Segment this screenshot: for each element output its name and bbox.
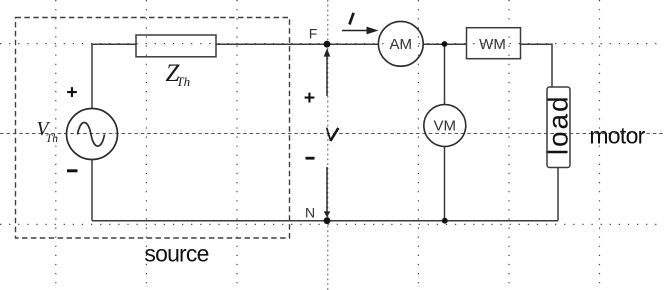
wire: Z_Th to node F — [216, 43, 327, 45]
voltage annotation arrow up to F — [324, 48, 331, 96]
svg-text:+: + — [304, 87, 315, 109]
voltage source V_Th circle — [67, 109, 118, 160]
label V — [327, 128, 339, 141]
load box — [547, 87, 570, 168]
current arrow I — [342, 27, 379, 35]
wire: voltmeter branch top — [444, 44, 446, 104]
svg-text:N: N — [305, 205, 315, 221]
svg-text:load: load — [543, 95, 574, 156]
wire: bottom return — [92, 220, 558, 222]
wattmeter WM box — [467, 28, 521, 59]
sine symbol — [78, 123, 105, 147]
wire: load bottom vertical — [557, 168, 559, 221]
node N dot — [324, 217, 331, 224]
svg-text:VM: VM — [434, 118, 457, 135]
wire: voltmeter branch bottom — [444, 147, 446, 221]
wire: wattmeter to load top — [521, 44, 553, 87]
svg-text:source: source — [144, 241, 208, 267]
voltage annotation arrow down to N — [324, 167, 331, 217]
wire: ammeter to junction — [423, 43, 445, 45]
svg-text:+: + — [66, 82, 77, 104]
wire: junction to wattmeter — [445, 43, 467, 45]
voltmeter VM — [424, 105, 466, 147]
source boundary dashed box — [16, 18, 290, 239]
wire: source top vertical — [92, 44, 136, 109]
svg-text:ZTh: ZTh — [166, 60, 191, 89]
junction dot at ammeter-wattmeter — [442, 41, 448, 47]
ammeter AM — [378, 21, 423, 66]
wire: source bottom vertical — [91, 160, 93, 221]
svg-text:AM: AM — [390, 36, 413, 53]
wire: node F to ammeter — [327, 43, 379, 45]
svg-text:motor: motor — [589, 123, 645, 149]
svg-text:F: F — [309, 26, 318, 42]
node F dot — [324, 41, 331, 48]
svg-text:WM: WM — [479, 36, 506, 53]
label I — [349, 13, 353, 25]
svg-text:Th: Th — [46, 133, 58, 145]
voltage minus sign — [306, 157, 315, 160]
impedance Z_Th box — [136, 35, 216, 57]
source minus sign — [67, 169, 78, 172]
junction dot on bottom wire — [442, 218, 448, 224]
